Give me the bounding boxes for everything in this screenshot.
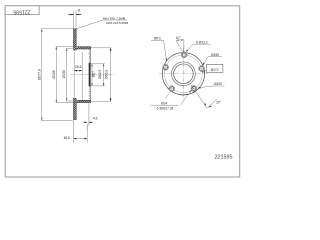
svg-text:9: 9 <box>78 8 80 12</box>
dim 48.5 extension lines <box>73 121 75 143</box>
dim 4.5 extension lines <box>86 124 88 130</box>
hat bottom wall section <box>76 100 90 102</box>
angle 20 annotation <box>191 85 222 108</box>
svg-text:Ø14: Ø14 <box>161 101 167 105</box>
svg-text:5-Ø13.3: 5-Ø13.3 <box>196 40 208 44</box>
angle 10 annotation <box>176 36 184 53</box>
bore circle <box>174 64 194 84</box>
dim Ø158 extension lines <box>66 47 74 49</box>
hub plate right face upper <box>90 49 92 63</box>
vertical centerline <box>182 48 184 101</box>
dim 4.5 arrows <box>84 121 88 123</box>
dim Ø166 line <box>55 47 57 103</box>
hub plate right face lower <box>90 86 92 100</box>
title tab top-left <box>5 6 39 15</box>
label 5-Ø13.3 <box>186 40 211 52</box>
svg-text:Ø277.6: Ø277.6 <box>38 69 42 80</box>
svg-text:Ø65.9: Ø65.9 <box>104 70 108 79</box>
svg-text:Ø65.9: Ø65.9 <box>98 70 102 79</box>
bolt PCD circle <box>165 55 203 93</box>
hidden bolt hole upper (dashed) <box>89 52 91 54</box>
dim 26.6 label <box>75 64 82 69</box>
svg-text:Ø158: Ø158 <box>62 70 66 78</box>
svg-text:Ø172: Ø172 <box>211 68 219 72</box>
dim Ø158 line <box>66 48 68 101</box>
bolt hole top <box>181 52 187 58</box>
dim 9 arrows <box>68 14 73 16</box>
label Ø100 <box>198 82 225 88</box>
tall dim line <box>110 48 112 102</box>
svg-text:221595: 221595 <box>215 154 233 160</box>
svg-text:Ø100: Ø100 <box>214 82 222 86</box>
hub plate hidden bore line (dashed) <box>88 49 90 63</box>
dim Ø277.6 line <box>41 29 43 121</box>
boxed label Ø172 <box>202 64 223 72</box>
svg-text:26.6: 26.6 <box>75 65 82 69</box>
dim 26.6 extension lines <box>73 52 75 100</box>
svg-text:Ø9.6: Ø9.6 <box>154 37 161 41</box>
svg-text:6.3Ø127.33: 6.3Ø127.33 <box>157 107 174 111</box>
svg-text:4.5: 4.5 <box>93 117 98 121</box>
svg-text:MIN THK 7.3MM: MIN THK 7.3MM <box>103 16 126 20</box>
friction ring section lower (hatched) <box>74 98 77 119</box>
svg-text:48.5: 48.5 <box>64 136 71 140</box>
friction ring section upper (hatched) <box>74 29 77 50</box>
label Ø155 <box>203 53 222 66</box>
horizontal centerline <box>159 73 208 75</box>
bore bracket bottom line <box>91 85 105 87</box>
dim Ø166 extension lines <box>56 46 77 48</box>
svg-text:Ø166: Ø166 <box>52 70 56 78</box>
bolt hole upper-left <box>162 64 168 70</box>
note MIN THK leader <box>76 20 103 29</box>
bore circle outer <box>172 62 196 86</box>
svg-text:Ø67: Ø67 <box>92 71 96 77</box>
dim Ø277.6 extension lines <box>41 28 73 30</box>
bolt hole lower-right <box>191 85 197 91</box>
svg-text:221595: 221595 <box>13 8 30 14</box>
dim Ø67 line <box>91 64 93 86</box>
bore bracket top line <box>91 63 105 65</box>
bolt hole lower-left <box>169 86 175 92</box>
tall dim Ø65.9 ext top <box>91 47 112 49</box>
bolt hole right <box>198 65 204 71</box>
border frame <box>5 6 240 177</box>
hidden bolt hole lower (dashed) <box>89 90 91 92</box>
svg-text:20°: 20° <box>216 101 222 105</box>
centerline horizontal <box>70 74 114 76</box>
dim 9 thickness: extension lines <box>73 11 75 29</box>
svg-text:Ø155: Ø155 <box>211 53 219 57</box>
label Ø14 / 6.3Ø127.33 <box>151 90 192 111</box>
svg-text:10°: 10° <box>176 36 182 40</box>
dim 48.5 line <box>74 138 88 140</box>
label Ø9.6 <box>151 37 167 62</box>
dim 26.6 arrows <box>74 70 82 72</box>
centre bore edge (bold) <box>89 63 91 87</box>
hub outer circle <box>162 53 204 95</box>
svg-text:MAX DIA 5.0MM: MAX DIA 5.0MM <box>106 21 129 25</box>
dim Ø65.9 line <box>103 64 105 86</box>
hat top wall section <box>76 47 90 49</box>
